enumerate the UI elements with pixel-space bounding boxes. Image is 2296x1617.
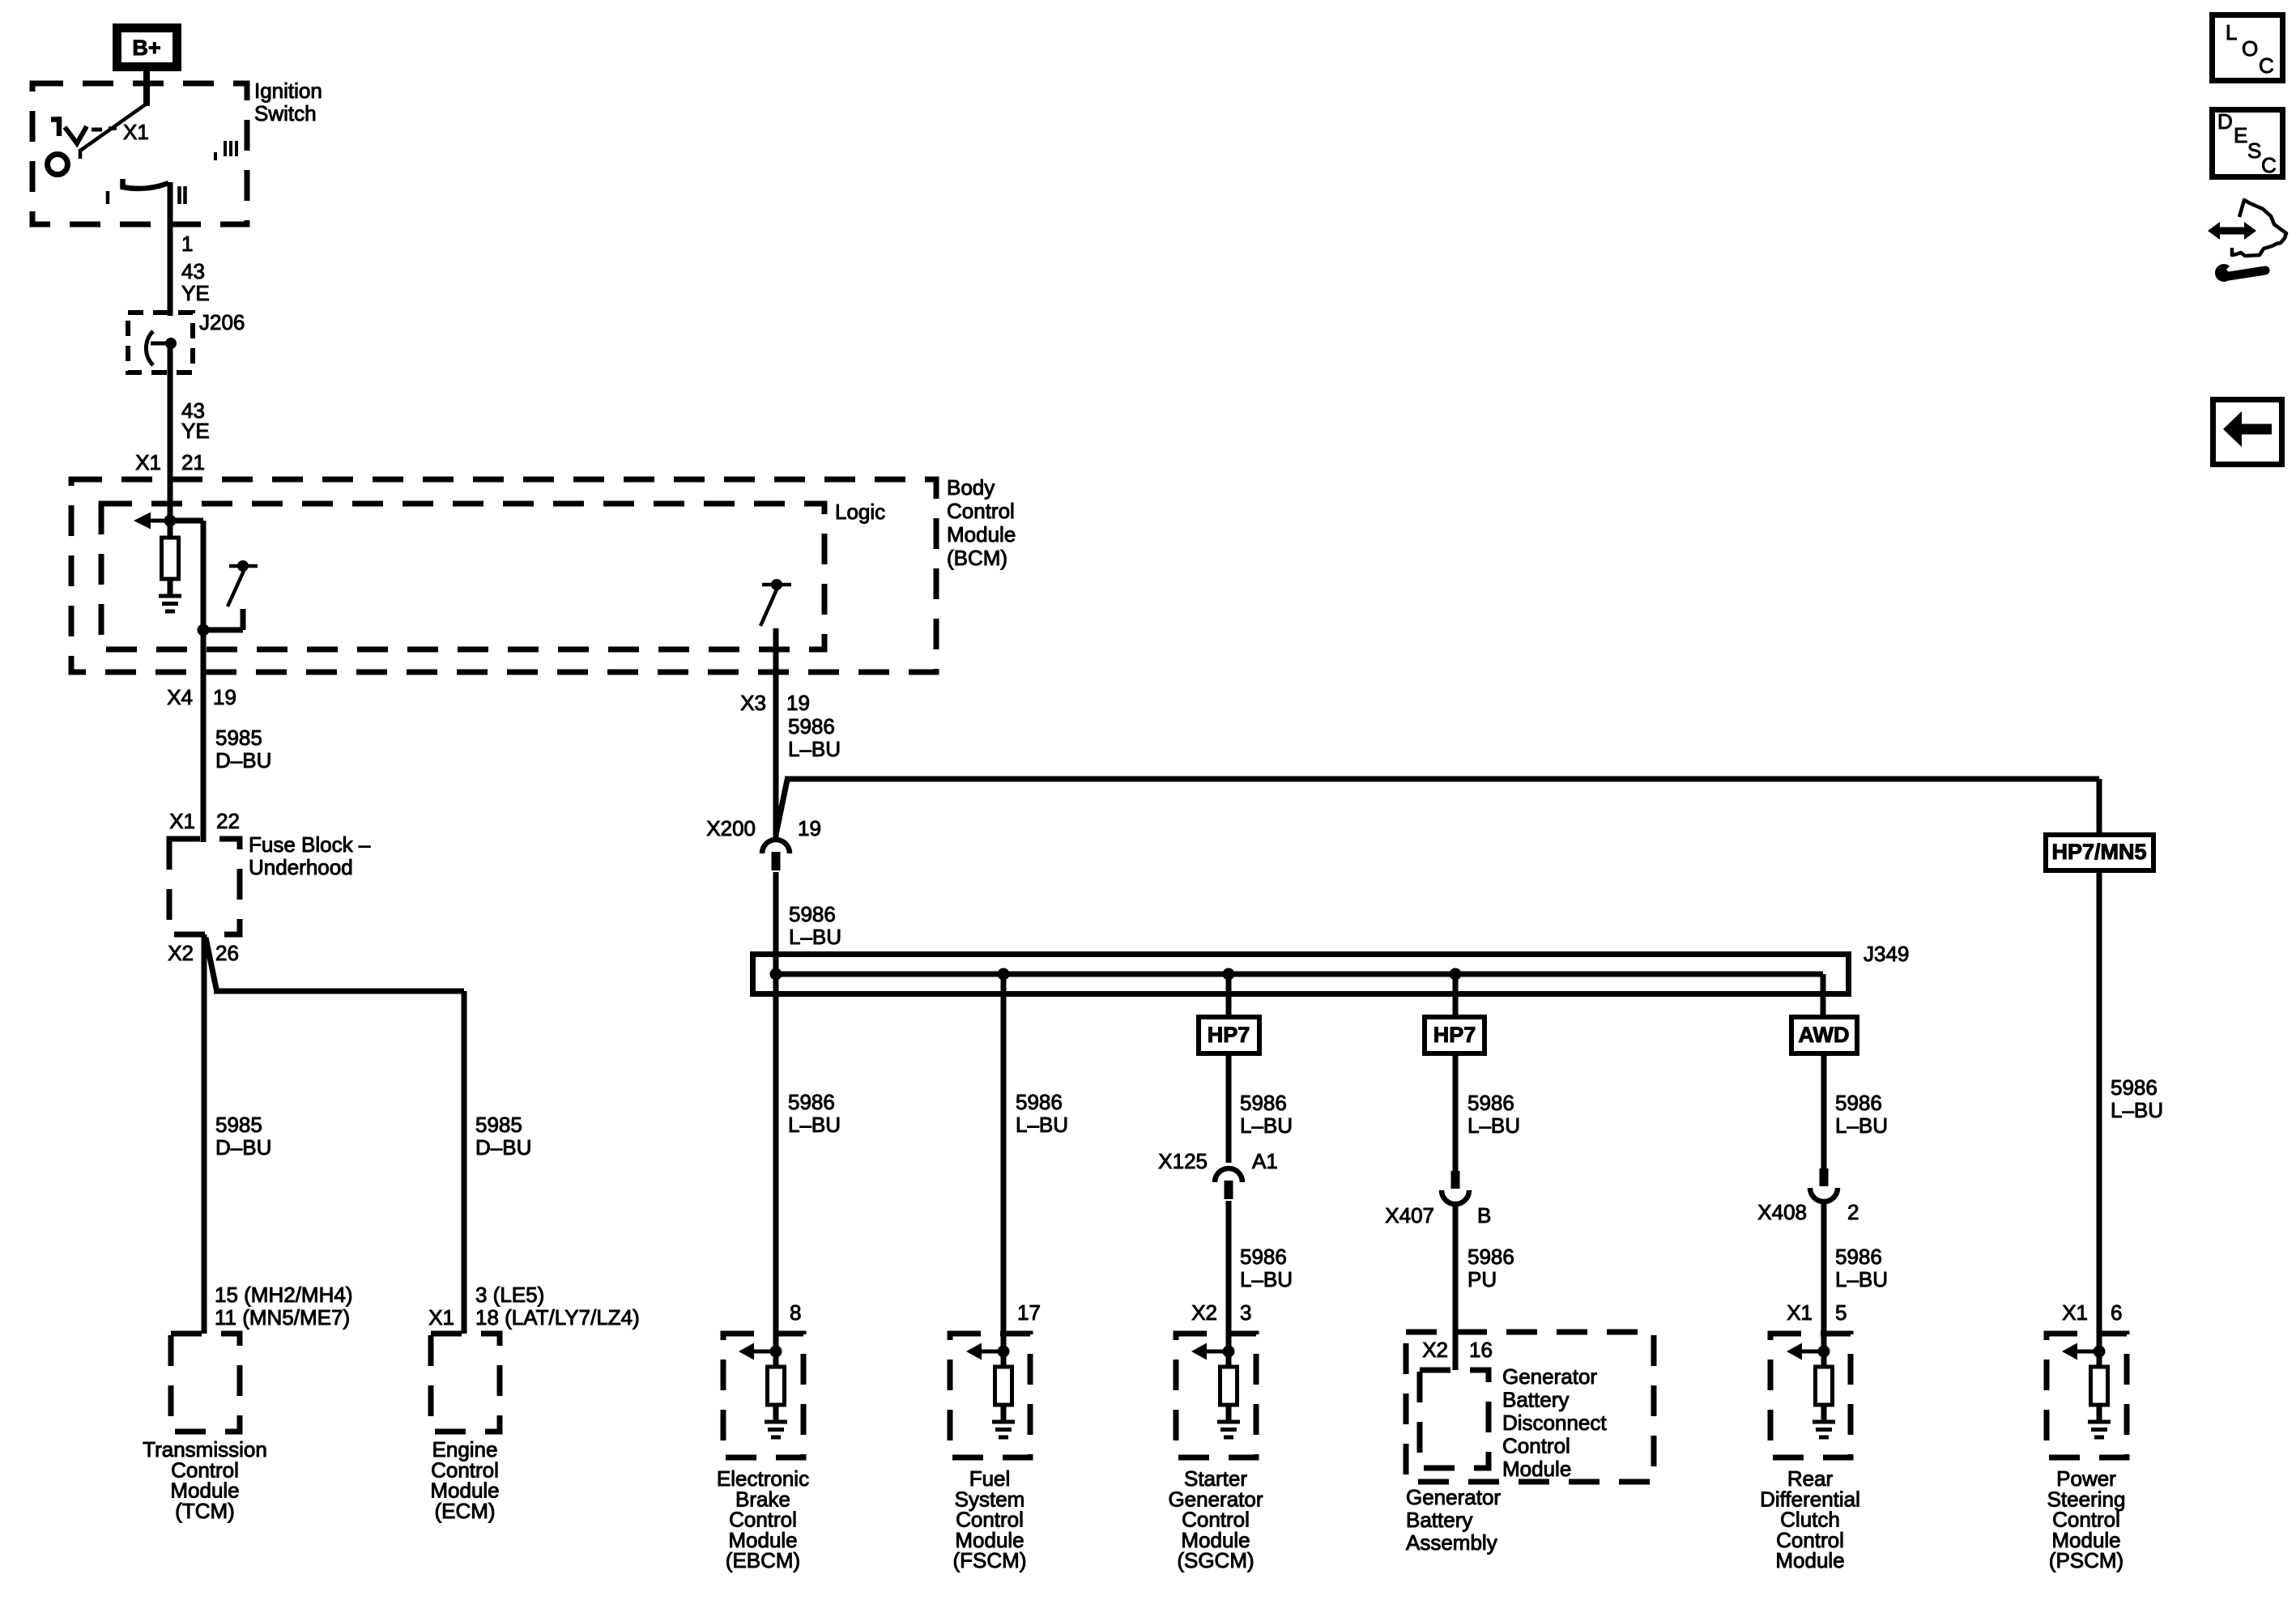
svg-text:22: 22 (216, 809, 240, 833)
ECM caption (430, 1437, 499, 1523)
wire label 5985 D-BU (ECM) (475, 1113, 531, 1160)
connector X200 labels (706, 816, 821, 840)
wire label 43 YE (lower) (181, 398, 210, 443)
fuse block label (249, 832, 371, 879)
svg-text:O: O (2242, 36, 2258, 61)
svg-text:HP7/MN5: HP7/MN5 (2051, 840, 2146, 864)
svg-text:X1: X1 (1787, 1300, 1813, 1325)
svg-text:5985: 5985 (215, 1113, 262, 1137)
ignition detent arc (123, 179, 169, 189)
svg-text:(ECM): (ECM) (434, 1499, 495, 1523)
svg-text:J206: J206 (199, 310, 245, 334)
GBDCM label (1502, 1364, 1607, 1481)
svg-text:18 (LAT/LY7/LZ4): 18 (LAT/LY7/LZ4) (475, 1305, 640, 1330)
wire label 5986 L-BU (below X3) (788, 714, 841, 761)
fuse block connector X1 pin 22 labels (169, 809, 240, 833)
PSCM caption (2047, 1466, 2126, 1572)
svg-text:L–BU: L–BU (1467, 1113, 1520, 1138)
svg-text:X2: X2 (1191, 1300, 1217, 1325)
svg-text:L–BU: L–BU (2111, 1098, 2163, 1122)
EBCM internal arrow resistor ground (739, 1333, 787, 1437)
svg-text:L: L (2226, 20, 2237, 45)
svg-text:X4: X4 (167, 685, 193, 709)
svg-text:S: S (2247, 138, 2261, 163)
svg-text:5985: 5985 (475, 1113, 522, 1137)
svg-text:Body: Body (947, 475, 995, 500)
wire label 5986 L-BU (above J349) (789, 902, 841, 949)
generator battery assembly dashed box (1406, 1332, 1654, 1482)
svg-text:5986: 5986 (1835, 1091, 1882, 1115)
svg-text:1: 1 (181, 232, 193, 256)
svg-text:D–BU: D–BU (215, 1135, 271, 1160)
connector X407 labels (1385, 1203, 1491, 1228)
wire J349 to HP7 box (SGCM) (1226, 974, 1232, 1019)
svg-text:Underhood: Underhood (249, 855, 353, 879)
svg-text:Battery: Battery (1502, 1388, 1569, 1412)
svg-text:Control: Control (1502, 1434, 1570, 1458)
wire HP7 to X125 (1226, 1053, 1232, 1163)
battery feed B+ symbol (117, 28, 177, 67)
BCM left switch blade (228, 571, 244, 606)
wire label 5986 L-BU (FSCM) (1016, 1090, 1068, 1137)
svg-text:L–BU: L–BU (1016, 1113, 1068, 1137)
svg-text:17: 17 (1017, 1300, 1041, 1325)
ignition position I mark (106, 191, 110, 204)
svg-text:43: 43 (181, 259, 205, 283)
BCM label (947, 475, 1016, 570)
svg-text:AWD: AWD (1799, 1023, 1850, 1047)
wire junction to right branch (170, 521, 203, 630)
svg-text:19: 19 (213, 685, 236, 709)
svg-text:PU: PU (1467, 1267, 1497, 1291)
svg-text:5986: 5986 (788, 1090, 835, 1114)
wire label 5986 L-BU (SGCM upper) (1240, 1091, 1293, 1138)
wire label 5985 D-BU (TCM) (215, 1113, 271, 1160)
wire X407 to GBDCM (1453, 1206, 1459, 1370)
svg-text:X2: X2 (168, 941, 194, 965)
ignition mechanical link dashes (92, 128, 117, 130)
DESC icon box (2213, 109, 2283, 177)
FSCM pin 17 label (1017, 1300, 1041, 1325)
svg-text:5986: 5986 (789, 902, 836, 926)
wire label 5986 PU (1467, 1245, 1514, 1291)
svg-text:Generator: Generator (1406, 1485, 1501, 1509)
svg-text:5985: 5985 (215, 726, 262, 750)
svg-text:8: 8 (790, 1300, 801, 1325)
splice J349 label (1864, 942, 1909, 966)
svg-text:L–BU: L–BU (1835, 1113, 1888, 1138)
branch wire to ECM (206, 938, 464, 1334)
hand adjust icon (2208, 200, 2286, 256)
TCM caption (143, 1437, 267, 1523)
generator battery disconnect control module dashed box (1420, 1370, 1489, 1468)
HP7/MN5 option box (2046, 835, 2153, 870)
connector X125 labels (1158, 1149, 1278, 1173)
svg-text:X407: X407 (1385, 1203, 1434, 1228)
wire BCM X4 to fuse block (201, 672, 207, 842)
svg-text:5986: 5986 (1240, 1245, 1287, 1269)
connector X408 symbol (1810, 1168, 1838, 1202)
RDCCM internal arrow resistor ground (1787, 1333, 1835, 1437)
splice J206 dashed box (128, 313, 193, 372)
SGCM connector X2 pin 3 labels (1191, 1300, 1251, 1325)
svg-text:5986: 5986 (1835, 1245, 1882, 1269)
ignition key symbol (51, 117, 87, 143)
svg-text:L–BU: L–BU (1835, 1267, 1888, 1291)
svg-text:26: 26 (215, 941, 239, 965)
svg-text:(PSCM): (PSCM) (2049, 1548, 2123, 1572)
branch wire to PSCM column (776, 779, 2099, 835)
svg-text:Module: Module (1502, 1457, 1571, 1481)
wire AWD to X408 (1821, 1053, 1827, 1169)
svg-text:(EBCM): (EBCM) (726, 1548, 800, 1572)
wire J206 to BCM (168, 343, 173, 484)
svg-text:5986: 5986 (788, 714, 835, 738)
wire HP7/MN5 to PSCM (2097, 870, 2102, 1334)
svg-text:Ignition: Ignition (254, 79, 322, 103)
BCM internal ground (159, 596, 181, 611)
EBCM pin 8 label (790, 1300, 801, 1325)
svg-text:Generator: Generator (1502, 1364, 1597, 1389)
svg-text:3: 3 (1240, 1300, 1251, 1325)
ignition position II marks (180, 186, 185, 204)
svg-text:2: 2 (1847, 1200, 1859, 1224)
fuel system control module (FSCM) dashed box (950, 1334, 1030, 1457)
svg-text:16: 16 (1469, 1338, 1493, 1362)
connector X407 symbol (1442, 1171, 1469, 1204)
wire B+ to ignition switch (143, 71, 150, 106)
svg-text:D–BU: D–BU (475, 1135, 531, 1160)
rear differential clutch control module dashed box (1770, 1334, 1851, 1457)
HP7 option box (GBDCM) (1425, 1017, 1485, 1053)
svg-text:X1: X1 (169, 809, 195, 833)
wire label 5986 L-BU (SGCM lower) (1240, 1245, 1293, 1291)
svg-text:HP7: HP7 (1433, 1023, 1476, 1047)
svg-text:5986: 5986 (1016, 1090, 1063, 1114)
svg-text:19: 19 (786, 691, 810, 715)
svg-text:YE: YE (181, 419, 210, 443)
svg-text:HP7: HP7 (1208, 1023, 1250, 1047)
svg-text:L–BU: L–BU (1240, 1267, 1293, 1291)
wire BCM left output (201, 630, 207, 677)
wire J349 to FSCM (1001, 974, 1007, 1334)
wire label 43 YE (upper) (181, 259, 210, 305)
svg-text:L–BU: L–BU (789, 925, 841, 949)
svg-text:X3: X3 (740, 691, 766, 715)
ignition key circle (48, 155, 68, 175)
electronic brake control module (EBCM) dashed box (723, 1334, 803, 1457)
wire HP7 to X407 (1453, 1053, 1459, 1172)
svg-text:19: 19 (798, 816, 821, 840)
ignition position III marks (215, 141, 236, 160)
svg-text:X2: X2 (1422, 1338, 1448, 1362)
wire fuse block to TCM (202, 934, 207, 1334)
svg-text:L–BU: L–BU (1240, 1113, 1293, 1138)
J349 junction node SGCM (1223, 968, 1235, 981)
engine control module (ECM) dashed box (431, 1334, 500, 1432)
svg-text:Disconnect: Disconnect (1502, 1411, 1607, 1435)
FSCM internal arrow resistor ground (966, 1333, 1015, 1437)
svg-text:15 (MH2/MH4): 15 (MH2/MH4) (215, 1283, 352, 1307)
wire J349 to AWD box (1821, 974, 1826, 1019)
ignition connector X1 label (123, 120, 149, 144)
BCM right switch blade (760, 589, 777, 626)
connector X408 labels (1757, 1200, 1859, 1224)
wire label 5986 L-BU (PSCM) (2111, 1075, 2163, 1122)
wire BCM X3 to X200 (773, 672, 779, 840)
BCM connector X4 pin 19 labels (167, 685, 236, 709)
BCM pull resistor (162, 521, 179, 594)
svg-text:D: D (2217, 109, 2233, 134)
SGCM internal arrow resistor ground (1191, 1333, 1240, 1437)
GBDCM connector X2 pin 16 labels (1422, 1338, 1493, 1362)
wire label 5986 L-BU (GBDCM) (1467, 1091, 1520, 1138)
svg-text:(SGCM): (SGCM) (1177, 1548, 1254, 1572)
BCM input node junction (164, 484, 177, 527)
LOC icon box (2213, 15, 2283, 81)
pin 1 label (181, 232, 193, 256)
svg-text:5986: 5986 (1240, 1091, 1287, 1115)
svg-text:Module: Module (947, 522, 1016, 547)
wire BCM right switch output (773, 628, 779, 677)
svg-text:C: C (2261, 153, 2277, 177)
starter generator control module (SGCM) dashed box (1176, 1334, 1256, 1457)
svg-text:X1: X1 (428, 1305, 454, 1330)
svg-text:Control: Control (947, 499, 1015, 523)
svg-text:5986: 5986 (1467, 1245, 1514, 1269)
wire label 5986 L-BU (RDCCM lower) (1835, 1245, 1888, 1291)
HP7 option box (SGCM) (1199, 1017, 1259, 1053)
connector X200 symbol (762, 840, 790, 870)
generator battery assembly caption (1406, 1485, 1501, 1555)
SGCM caption (1168, 1466, 1263, 1572)
svg-text:X408: X408 (1757, 1200, 1807, 1224)
BCM left arrow (134, 513, 170, 530)
RDCCM caption (1760, 1466, 1860, 1572)
svg-text:B+: B+ (132, 36, 160, 60)
svg-text:YE: YE (181, 281, 210, 305)
svg-text:Assembly: Assembly (1406, 1530, 1497, 1555)
svg-text:6: 6 (2111, 1300, 2122, 1325)
svg-text:21: 21 (181, 450, 205, 474)
splice pack J349 box (753, 955, 1849, 994)
BCM connector X1 pin 21 labels (135, 450, 205, 474)
back arrow icon box (2213, 400, 2282, 465)
fuse block connector X2 pin 26 labels (168, 941, 239, 965)
transmission control module (TCM) dashed box (171, 1334, 240, 1432)
svg-text:Module: Module (1775, 1548, 1844, 1572)
ECM pin labels (428, 1283, 640, 1330)
svg-text:J349: J349 (1864, 942, 1909, 966)
BCM left switch output (198, 609, 244, 636)
wire X200 to J349 (773, 872, 779, 974)
svg-text:X1: X1 (135, 450, 161, 474)
wire J349 to HP7 box (GBDCM) (1453, 974, 1459, 1019)
RDCCM connector X1 pin 5 labels (1787, 1300, 1847, 1325)
J349 junction node EBCM (770, 968, 782, 981)
PSCM internal arrow resistor ground (2062, 1333, 2111, 1437)
ignition switch dashed box (32, 83, 247, 224)
ignition switch label (254, 79, 322, 126)
splice J206 label (199, 310, 245, 334)
BCM logic dashed box (101, 504, 824, 649)
J349 junction node FSCM (998, 968, 1010, 981)
svg-text:(FSCM): (FSCM) (953, 1548, 1027, 1572)
svg-text:B: B (1477, 1203, 1491, 1228)
svg-text:X125: X125 (1158, 1149, 1208, 1173)
svg-text:D–BU: D–BU (215, 748, 271, 772)
J349 junction node GBDCM (1450, 968, 1462, 981)
svg-text:Switch: Switch (254, 101, 317, 126)
svg-text:Logic: Logic (835, 500, 885, 524)
power steering control module (PSCM) dashed box (2047, 1334, 2127, 1457)
BCM right switch contact (762, 579, 791, 590)
svg-text:(TCM): (TCM) (175, 1499, 235, 1523)
wire label 5985 D-BU (upper) (215, 726, 271, 772)
svg-text:X200: X200 (706, 816, 756, 840)
svg-text:C: C (2259, 53, 2274, 78)
svg-text:E: E (2234, 123, 2247, 147)
body control module (BCM) dashed box (71, 479, 936, 672)
fuse block underhood dashed box (169, 839, 240, 934)
connector X125 symbol (1215, 1168, 1242, 1199)
svg-text:5: 5 (1835, 1300, 1847, 1325)
BCM left switch contact (229, 560, 258, 572)
splice J206 symbol (146, 331, 177, 365)
ignition switch blade (80, 104, 147, 159)
TCM pin labels (215, 1283, 352, 1330)
svg-text:5986: 5986 (1467, 1091, 1514, 1115)
svg-text:L–BU: L–BU (788, 1113, 841, 1137)
EBCM caption (717, 1466, 809, 1572)
svg-text:A1: A1 (1252, 1149, 1278, 1173)
FSCM caption (953, 1466, 1027, 1572)
wire label 5986 L-BU (RDCCM upper) (1835, 1091, 1888, 1138)
wrench icon (2215, 262, 2265, 282)
svg-text:3 (LE5): 3 (LE5) (475, 1283, 544, 1307)
svg-text:(BCM): (BCM) (947, 546, 1007, 570)
BCM connector X3 pin 19 labels (740, 691, 810, 715)
wire X125 to SGCM (1226, 1201, 1232, 1334)
wire ignition switch to J206 (168, 182, 173, 316)
PSCM connector X1 pin 6 labels (2062, 1300, 2122, 1325)
splice pack J349 bus wire (776, 974, 1823, 1017)
AWD option box (1791, 1017, 1857, 1053)
svg-text:L–BU: L–BU (788, 737, 841, 761)
wire label 5986 L-BU (EBCM) (788, 1090, 841, 1137)
logic label (835, 500, 885, 524)
wire J349 to EBCM (773, 974, 779, 1334)
svg-text:11 (MN5/ME7): 11 (MN5/ME7) (215, 1305, 350, 1330)
svg-text:X1: X1 (123, 120, 149, 144)
svg-text:5986: 5986 (2111, 1075, 2158, 1100)
svg-text:Battery: Battery (1406, 1508, 1472, 1532)
svg-text:X1: X1 (2062, 1300, 2088, 1325)
svg-text:Fuse Block –: Fuse Block – (249, 832, 371, 857)
wire X408 to RDCCM (1821, 1203, 1827, 1334)
